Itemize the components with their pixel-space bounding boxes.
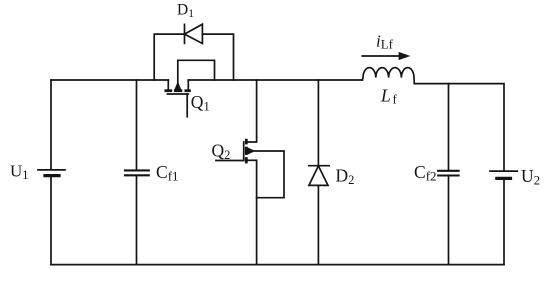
label D2 <box>336 165 355 187</box>
arrow iLf current <box>362 52 410 60</box>
label U2 <box>521 166 540 188</box>
svg-text:L: L <box>380 85 391 105</box>
wire bottom rail <box>51 264 504 266</box>
wire Q1 body-source loop <box>178 60 215 84</box>
battery U1 <box>38 170 65 176</box>
wire Cf2 branch <box>448 84 450 265</box>
inductor Lf <box>362 68 414 84</box>
capacitor Cf2 <box>438 171 458 176</box>
wire Q2 drain branch <box>248 80 257 142</box>
svg-text:f: f <box>393 91 398 106</box>
label U1 <box>10 162 29 183</box>
wire Q2 source branch <box>256 160 258 264</box>
wire top rail right (inductor to U2 corner) <box>414 84 504 171</box>
diode D1 <box>185 24 203 43</box>
wire left vertical U1 branch <box>50 80 52 265</box>
wire top rail middle (Q1 to inductor) <box>188 79 362 81</box>
label iLf <box>376 32 394 52</box>
label Cf2 <box>414 162 437 184</box>
battery U2 <box>490 171 517 178</box>
transistor Q1 <box>165 80 191 117</box>
label D1 <box>177 2 194 21</box>
wire Cf1 branch <box>136 80 138 265</box>
label Cf1 <box>156 162 179 184</box>
diode D2 <box>309 166 329 186</box>
label Q1 <box>191 92 210 114</box>
capacitor Cf1 <box>125 170 149 175</box>
transistor Q2 <box>216 139 257 164</box>
label Q2 <box>212 141 231 163</box>
wire D1 loop <box>154 34 233 80</box>
label Lf <box>380 85 398 106</box>
wire D2 branch <box>317 80 319 265</box>
wire Q2 body-source loop <box>255 151 285 198</box>
wire top rail left (U1 corner to Q1 drain) <box>51 79 168 81</box>
wire U2 lower lead <box>503 179 505 265</box>
